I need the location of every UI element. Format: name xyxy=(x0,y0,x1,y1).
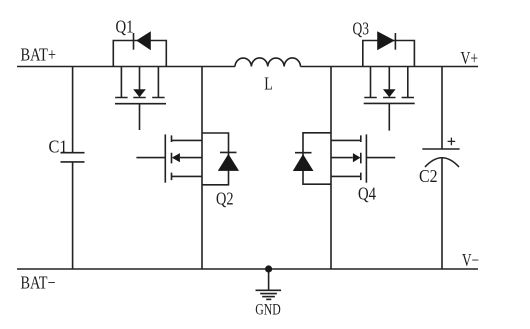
svg-text:BAT−: BAT− xyxy=(21,273,56,293)
svg-text:V+: V+ xyxy=(461,48,479,68)
svg-text:Q2: Q2 xyxy=(216,188,234,208)
svg-text:C1: C1 xyxy=(49,137,68,157)
svg-text:Q3: Q3 xyxy=(353,19,370,39)
svg-text:V−: V− xyxy=(462,250,479,270)
svg-text:C2: C2 xyxy=(419,166,438,186)
svg-text:Q4: Q4 xyxy=(358,183,376,203)
svg-text:Q1: Q1 xyxy=(116,17,134,37)
svg-text:BAT+: BAT+ xyxy=(21,45,57,65)
svg-text:L: L xyxy=(264,73,273,93)
svg-text:GND: GND xyxy=(255,301,280,318)
